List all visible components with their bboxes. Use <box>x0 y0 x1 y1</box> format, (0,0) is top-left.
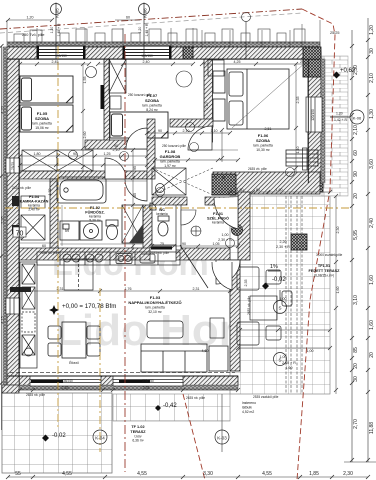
svg-text:1,50: 1,50 <box>237 188 244 192</box>
dim row bedroom3 top <box>202 63 308 65</box>
top exterior wall insulation <box>7 42 320 47</box>
svg-text:1,30: 1,30 <box>369 109 375 119</box>
label TF1-02 terasz <box>130 425 146 443</box>
svg-text:11,88: 11,88 <box>369 422 375 434</box>
svg-text:lnstereno: lnstereno <box>242 401 256 405</box>
left exterior wall <box>7 59 19 385</box>
bedroom3 south wall <box>213 172 320 194</box>
nightstand bedroom2 <box>110 96 121 109</box>
dresser bedroom3 <box>286 150 318 166</box>
level -0,02 terrace right <box>262 277 286 290</box>
bedroom2 south wall <box>85 140 147 149</box>
svg-text:90: 90 <box>158 129 162 133</box>
svg-text:95: 95 <box>133 166 137 170</box>
left chain texts <box>0 105 5 324</box>
top-left corner small dims <box>6 18 140 22</box>
svg-text:2,10: 2,10 <box>183 129 190 133</box>
kamra/bath wall <box>50 179 58 250</box>
pier between window2 and bedroom3 <box>183 47 193 59</box>
svg-text:-0,42: -0,42 <box>163 403 177 409</box>
right exterior wall upper <box>308 52 321 183</box>
top exterior wall <box>7 47 320 59</box>
dim verticals bedroom1 <box>82 64 84 171</box>
kamra shelves <box>21 196 45 240</box>
bathroom sink <box>80 221 102 240</box>
wc door arc <box>181 210 196 225</box>
red dashed terrace diagonal bottom-left <box>183 394 205 480</box>
living east wall lower <box>230 260 240 371</box>
label WC <box>156 208 168 216</box>
svg-text:-0,02: -0,02 <box>52 433 66 439</box>
terrace furniture chairs <box>237 267 292 345</box>
svg-text:4,60: 4,60 <box>202 349 209 353</box>
svg-text:8,24 m²: 8,24 m² <box>146 108 158 112</box>
svg-text:32,10 m²: 32,10 m² <box>148 310 162 314</box>
svg-text:20: 20 <box>369 352 375 358</box>
svg-text:4,25: 4,25 <box>234 60 241 64</box>
label F1-06 szoba <box>253 133 273 152</box>
dim row bottom outside wall <box>20 389 238 391</box>
svg-text:3,60: 3,60 <box>369 159 375 169</box>
right wall insulation <box>321 59 325 183</box>
svg-text:2,35: 2,35 <box>62 386 69 390</box>
section marker K-05 <box>51 3 62 60</box>
svg-text:235/150: 235/150 <box>142 379 154 383</box>
svg-text:1,60: 1,60 <box>336 287 340 294</box>
terrace door south <box>30 376 101 386</box>
svg-text:30: 30 <box>369 48 375 54</box>
window living left wall <box>6 298 20 314</box>
bed 1 bedroom1 <box>20 76 73 103</box>
tv board <box>210 318 224 338</box>
technical shaft block <box>212 174 236 195</box>
svg-text:1,00: 1,00 <box>222 233 229 237</box>
svg-text:K-03: K-03 <box>217 436 227 441</box>
svg-text:85: 85 <box>133 193 137 197</box>
svg-text:lam. parketta: lam. parketta <box>145 306 165 310</box>
bath/wc wall vertical <box>143 205 152 250</box>
svg-text:lam. parketta: lam. parketta <box>253 144 273 148</box>
svg-text:1,48 + R: 1,48 + R <box>145 23 149 36</box>
svg-text:1,80: 1,80 <box>34 152 41 156</box>
bottom-left wall corner block <box>2 385 19 393</box>
svg-text:K-04: K-04 <box>95 436 105 441</box>
svg-text:K-06: K-06 <box>143 8 148 18</box>
svg-text:2635 nb. pille: 2635 nb. pille <box>150 251 169 255</box>
lintel boxes above top wall <box>14 34 24 42</box>
svg-text:1,20: 1,20 <box>50 27 54 34</box>
svg-text:3,10: 3,10 <box>353 295 359 305</box>
bedroom3 diagonal guide <box>232 62 306 128</box>
svg-text:1,60: 1,60 <box>369 275 375 285</box>
drainage channel <box>286 196 302 394</box>
slope 1% arrow <box>268 264 280 271</box>
szelfogo north wall segment <box>205 197 238 205</box>
axis marker top small <box>242 13 251 60</box>
section line vertical red <box>124 34 126 472</box>
svg-text:2,30 + R: 2,30 + R <box>282 361 296 365</box>
svg-text:2,31: 2,31 <box>193 287 200 291</box>
svg-text:2635 nb. pille: 2635 nb. pille <box>40 251 59 255</box>
label F1-04 kamra-kazan <box>20 195 49 212</box>
gardrob/bedroom3 wall <box>170 119 213 127</box>
level marker circle right <box>330 110 364 124</box>
kitchen counter top <box>37 252 180 265</box>
svg-text:75/75: 75/75 <box>11 162 15 170</box>
svg-text:90: 90 <box>73 152 77 156</box>
svg-text:4,55: 4,55 <box>262 471 272 477</box>
gardrob closet X <box>152 168 213 195</box>
lamp circle bedroom1 <box>86 67 97 78</box>
svg-text:2,35: 2,35 <box>143 386 150 390</box>
gardrob walls <box>147 119 155 179</box>
wc/szelfogo divider wall <box>176 205 181 250</box>
wardrobe bedroom3 <box>208 60 224 76</box>
section marker K-06 <box>139 3 150 60</box>
svg-text:75: 75 <box>160 242 164 246</box>
electrical boxes left wall <box>12 196 19 206</box>
svg-text:2,45: 2,45 <box>52 60 59 64</box>
dining table <box>48 322 100 358</box>
svg-text:2,60: 2,60 <box>83 132 87 139</box>
label F1-05 szoba <box>32 111 52 130</box>
small dimension numbers scattered <box>11 54 342 400</box>
svg-text:TERASZ: TERASZ <box>130 430 146 434</box>
dim row living <box>238 347 330 349</box>
pille bar text left <box>10 287 31 292</box>
svg-text:2,30: 2,30 <box>343 471 353 477</box>
svg-text:S: S <box>278 306 281 311</box>
entrance door <box>214 197 238 229</box>
top-right corner pier <box>303 47 321 77</box>
window bedroom1 <box>37 46 85 59</box>
bathtub <box>57 177 106 203</box>
svg-text:2635 nb. pille: 2635 nb. pille <box>186 396 205 400</box>
dim vertical center <box>132 150 134 250</box>
wall bedroom2/bedroom3 divider <box>204 59 213 142</box>
svg-text:2,10: 2,10 <box>113 148 120 152</box>
svg-text:(6,08/15+ m²): (6,08/15+ m²) <box>314 274 334 278</box>
covered terrace tile floor <box>230 196 330 394</box>
svg-text:1,20: 1,20 <box>138 27 142 34</box>
svg-text:15,06 m²: 15,06 m² <box>35 126 49 130</box>
svg-text:1,60: 1,60 <box>286 366 293 370</box>
svg-text:5,20 m²: 5,20 m² <box>89 219 101 223</box>
bedroom1 south wall / corridor <box>19 171 147 179</box>
kitchen counter left <box>20 262 37 368</box>
svg-text:25: 25 <box>300 60 304 64</box>
svg-text:2,40 m²: 2,40 m² <box>28 208 40 212</box>
svg-text:2,40: 2,40 <box>369 218 375 228</box>
svg-text:150/150: 150/150 <box>141 54 153 58</box>
svg-text:1,00: 1,00 <box>280 355 287 359</box>
svg-text:120/150: 120/150 <box>311 109 315 121</box>
bed bedroom3 <box>213 69 289 129</box>
svg-text:1,55: 1,55 <box>83 77 87 84</box>
living room dim row <box>18 289 232 293</box>
svg-text:NAPPALI/KONYHA-ÉTKEZŐ: NAPPALI/KONYHA-ÉTKEZŐ <box>128 300 181 305</box>
door width 70 label <box>13 227 26 238</box>
svg-text:25/25: 25/25 <box>330 31 340 35</box>
svg-text:2635 vb. pille: 2635 vb. pille <box>248 167 267 171</box>
svg-text:3,000 zuzalek pille: 3,000 zuzalek pille <box>316 253 342 257</box>
svg-text:K-06: K-06 <box>353 116 362 121</box>
svg-text:60: 60 <box>353 150 359 156</box>
side paving strip right <box>322 56 348 196</box>
svg-text:2,30: 2,30 <box>336 227 340 234</box>
label F1-03 nappali <box>128 295 181 314</box>
sofa <box>141 344 228 372</box>
bed bedroom2 <box>110 112 168 138</box>
wardrobe bedroom2 <box>109 59 126 93</box>
svg-text:90: 90 <box>182 242 186 246</box>
svg-text:55: 55 <box>15 471 21 477</box>
svg-text:5,95: 5,95 <box>353 230 359 240</box>
svg-text:60: 60 <box>42 244 46 248</box>
window bedroom2 <box>123 46 171 59</box>
watermark Lido Home <box>52 245 258 355</box>
living terrace door east <box>212 262 232 290</box>
svg-text:1,48 + R: 1,48 + R <box>57 23 61 36</box>
svg-text:1,20: 1,20 <box>336 112 343 116</box>
level +0,62 <box>333 68 356 79</box>
level -0,02 terrace left <box>42 433 66 442</box>
svg-text:1,42 + R: 1,42 + R <box>334 118 347 122</box>
svg-text:lam. parketta: lam. parketta <box>32 122 52 126</box>
svg-text:3,30: 3,30 <box>203 471 213 477</box>
svg-text:20: 20 <box>353 193 359 199</box>
svg-text:1,76: 1,76 <box>125 287 132 291</box>
axis line horizontal orange <box>5 207 352 209</box>
dim row corridor <box>20 155 147 157</box>
svg-text:60: 60 <box>126 16 130 20</box>
entrance east wall <box>238 192 250 260</box>
terrace dim line horizontal <box>238 328 332 332</box>
svg-text:+0,00 = 170,78 Bfm: +0,00 = 170,78 Bfm <box>62 303 116 310</box>
svg-text:4,20: 4,20 <box>0 105 5 114</box>
svg-text:2,30 + R: 2,30 + R <box>276 245 290 249</box>
svg-text:1,60: 1,60 <box>369 320 375 330</box>
svg-text:TF 1-02: TF 1-02 <box>131 425 144 429</box>
dim row top under windows <box>20 63 89 65</box>
svg-text:4,15: 4,15 <box>0 315 5 324</box>
svg-text:FEDETT TERASZ: FEDETT TERASZ <box>308 269 340 273</box>
terrace bottom-left tile floor <box>2 393 112 473</box>
window bedroom3 right wall <box>306 97 322 132</box>
svg-text:250 koszorú pille: 250 koszorú pille <box>162 144 186 148</box>
dimension line above wall <box>7 41 320 43</box>
corridor extra dim lines <box>18 158 240 248</box>
svg-text:6,36 m²: 6,36 m² <box>132 439 144 443</box>
svg-text:2,51: 2,51 <box>265 127 272 131</box>
ticks inner <box>350 38 370 462</box>
svg-text:150/150: 150/150 <box>55 54 67 58</box>
svg-text:+0,62: +0,62 <box>340 68 356 74</box>
svg-text:2420 nb. pille: 2420 nb. pille <box>12 186 31 190</box>
radiator bedroom2 <box>101 85 105 109</box>
label F1-02 furdoszoba <box>85 206 104 223</box>
door bedroom1 <box>105 158 126 179</box>
svg-text:1,05: 1,05 <box>213 242 220 246</box>
svg-text:TF1-01: TF1-01 <box>318 264 330 268</box>
svg-text:SZOBA: SZOBA <box>35 116 49 121</box>
axis line K-03 vertical <box>221 394 223 452</box>
entrance door leaf diagonal <box>180 245 208 288</box>
svg-text:látbulk: látbulk <box>242 406 252 410</box>
svg-text:2,35: 2,35 <box>296 97 300 104</box>
corridor south wall (wc front) <box>152 197 187 205</box>
svg-text:SZOBA: SZOBA <box>145 98 159 103</box>
svg-text:-0,02: -0,02 <box>272 277 286 283</box>
radiator bedroom3 <box>303 148 308 170</box>
corridor/living wall <box>19 248 230 260</box>
wardrobe bedroom1 <box>22 150 93 171</box>
svg-text:250 koszorú pille: 250 koszorú pille <box>128 93 152 97</box>
svg-text:1,97 m²: 1,97 m² <box>164 164 176 168</box>
label terasz lepcso <box>242 401 256 414</box>
center extra dims <box>60 128 238 244</box>
wall inner face lines <box>7 59 320 385</box>
label F1-01 szelfogo <box>207 212 229 225</box>
door szelfogo to living <box>216 260 240 284</box>
svg-text:235/240: 235/240 <box>61 379 73 383</box>
coffee table <box>147 321 183 338</box>
svg-text:1,25: 1,25 <box>104 152 111 156</box>
svg-text:20: 20 <box>353 363 359 369</box>
svg-text:85: 85 <box>353 347 359 353</box>
svg-text:1,85: 1,85 <box>309 471 319 477</box>
living south inner dashed face <box>10 372 235 374</box>
svg-text:2,95: 2,95 <box>0 215 5 224</box>
svg-text:2,20: 2,20 <box>280 240 287 244</box>
level -0,42 <box>155 403 177 411</box>
svg-text:1,00: 1,00 <box>280 297 287 301</box>
svg-text:1,70: 1,70 <box>48 189 52 196</box>
section marker K-03 bottom <box>215 430 229 444</box>
svg-text:SZOBA: SZOBA <box>256 138 270 143</box>
svg-text:F1-02: F1-02 <box>90 206 100 210</box>
svg-text:2535 zsalukő pille: 2535 zsalukő pille <box>253 395 279 399</box>
svg-text:1,40: 1,40 <box>296 147 300 154</box>
svg-text:80: 80 <box>256 188 260 192</box>
svg-text:Étkező: Étkező <box>69 360 79 365</box>
left exterior wall insulation <box>3 47 7 385</box>
svg-text:F1-04: F1-04 <box>29 195 40 199</box>
svg-text:GARDROB: GARDROB <box>160 154 181 159</box>
svg-text:2,10: 2,10 <box>353 125 359 135</box>
washing machine M <box>60 221 79 240</box>
svg-text:2,10: 2,10 <box>205 103 209 110</box>
svg-text:4,55: 4,55 <box>62 471 72 477</box>
svg-text:lam. parketta: lam. parketta <box>142 104 162 108</box>
dim vertical bedroom3 <box>295 64 297 172</box>
svg-text:90: 90 <box>353 171 359 177</box>
window kamra left wall <box>6 158 20 173</box>
svg-text:250 Tvö. pille: 250 Tvö. pille <box>22 33 45 37</box>
svg-text:2,35: 2,35 <box>244 280 248 287</box>
axis line K-04 vertical orange <box>99 288 101 452</box>
axis line orange left <box>57 46 59 430</box>
label F1-07 szoba <box>142 93 162 112</box>
terrace pillar <box>291 234 307 250</box>
bottom exterior wall (living room south) <box>7 376 238 386</box>
svg-text:4,55: 4,55 <box>137 471 147 477</box>
right chain numbers <box>353 25 375 434</box>
bottom-right corner pier of bedroom3 <box>300 178 323 192</box>
door bedroom3 <box>188 126 212 150</box>
svg-text:1,00: 1,00 <box>307 349 314 353</box>
svg-text:F1-01: F1-01 <box>213 212 223 216</box>
window living south <box>113 376 183 386</box>
column at entrance <box>232 225 243 236</box>
level +0,00 main <box>49 303 116 315</box>
svg-text:2635 nb. pille: 2635 nb. pille <box>247 296 251 315</box>
svg-text:1%: 1% <box>270 264 278 270</box>
lamp circle bedroom2 <box>176 71 192 87</box>
svg-text:1,20: 1,20 <box>27 16 34 20</box>
svg-text:10,30 m²: 10,30 m² <box>256 148 270 152</box>
svg-text:4,52 m2: 4,52 m2 <box>242 410 254 414</box>
marker circle szelfogo <box>191 226 201 236</box>
svg-text:1,10: 1,10 <box>211 129 218 133</box>
dim verticals terrace right <box>335 196 337 394</box>
svg-text:2,40: 2,40 <box>143 60 150 64</box>
door bathroom <box>125 179 147 201</box>
door number markers <box>69 123 295 248</box>
svg-text:30: 30 <box>353 376 359 382</box>
svg-text:1,90: 1,90 <box>276 188 283 192</box>
counter end with dark bar <box>150 245 176 261</box>
label F1-08 gardrob <box>160 149 181 168</box>
S markers on terrace <box>274 290 287 366</box>
svg-text:kerámia: kerámia <box>212 221 224 225</box>
svg-text:1,20: 1,20 <box>369 25 375 35</box>
bathroom toilet <box>106 220 118 240</box>
extension lines up to top dims <box>6 20 8 42</box>
dim texts near doors <box>42 127 314 370</box>
roof eave red dashed right <box>297 9 335 480</box>
wall bedroom1/bedroom2 divider <box>104 59 110 146</box>
dim row wc area <box>152 245 238 247</box>
bed 2 bedroom1 <box>20 105 73 132</box>
bottom wall insulation <box>7 385 238 390</box>
shower corner <box>122 205 143 243</box>
terrace step strip <box>113 394 230 421</box>
door bedroom2 <box>126 128 147 149</box>
section marker K-04 bottom <box>93 430 107 444</box>
svg-text:K-05: K-05 <box>55 8 60 18</box>
dim row terrace top <box>230 191 330 193</box>
wc toilet <box>150 203 169 236</box>
svg-text:2,70: 2,70 <box>353 419 359 429</box>
svg-text:2,30 + R: 2,30 + R <box>218 238 232 242</box>
kitchen island <box>64 259 93 290</box>
svg-text:2635 nb. pille: 2635 nb. pille <box>26 393 45 397</box>
svg-text:2,10: 2,10 <box>369 73 375 83</box>
label TF1-01 fedett terasz <box>308 264 340 278</box>
